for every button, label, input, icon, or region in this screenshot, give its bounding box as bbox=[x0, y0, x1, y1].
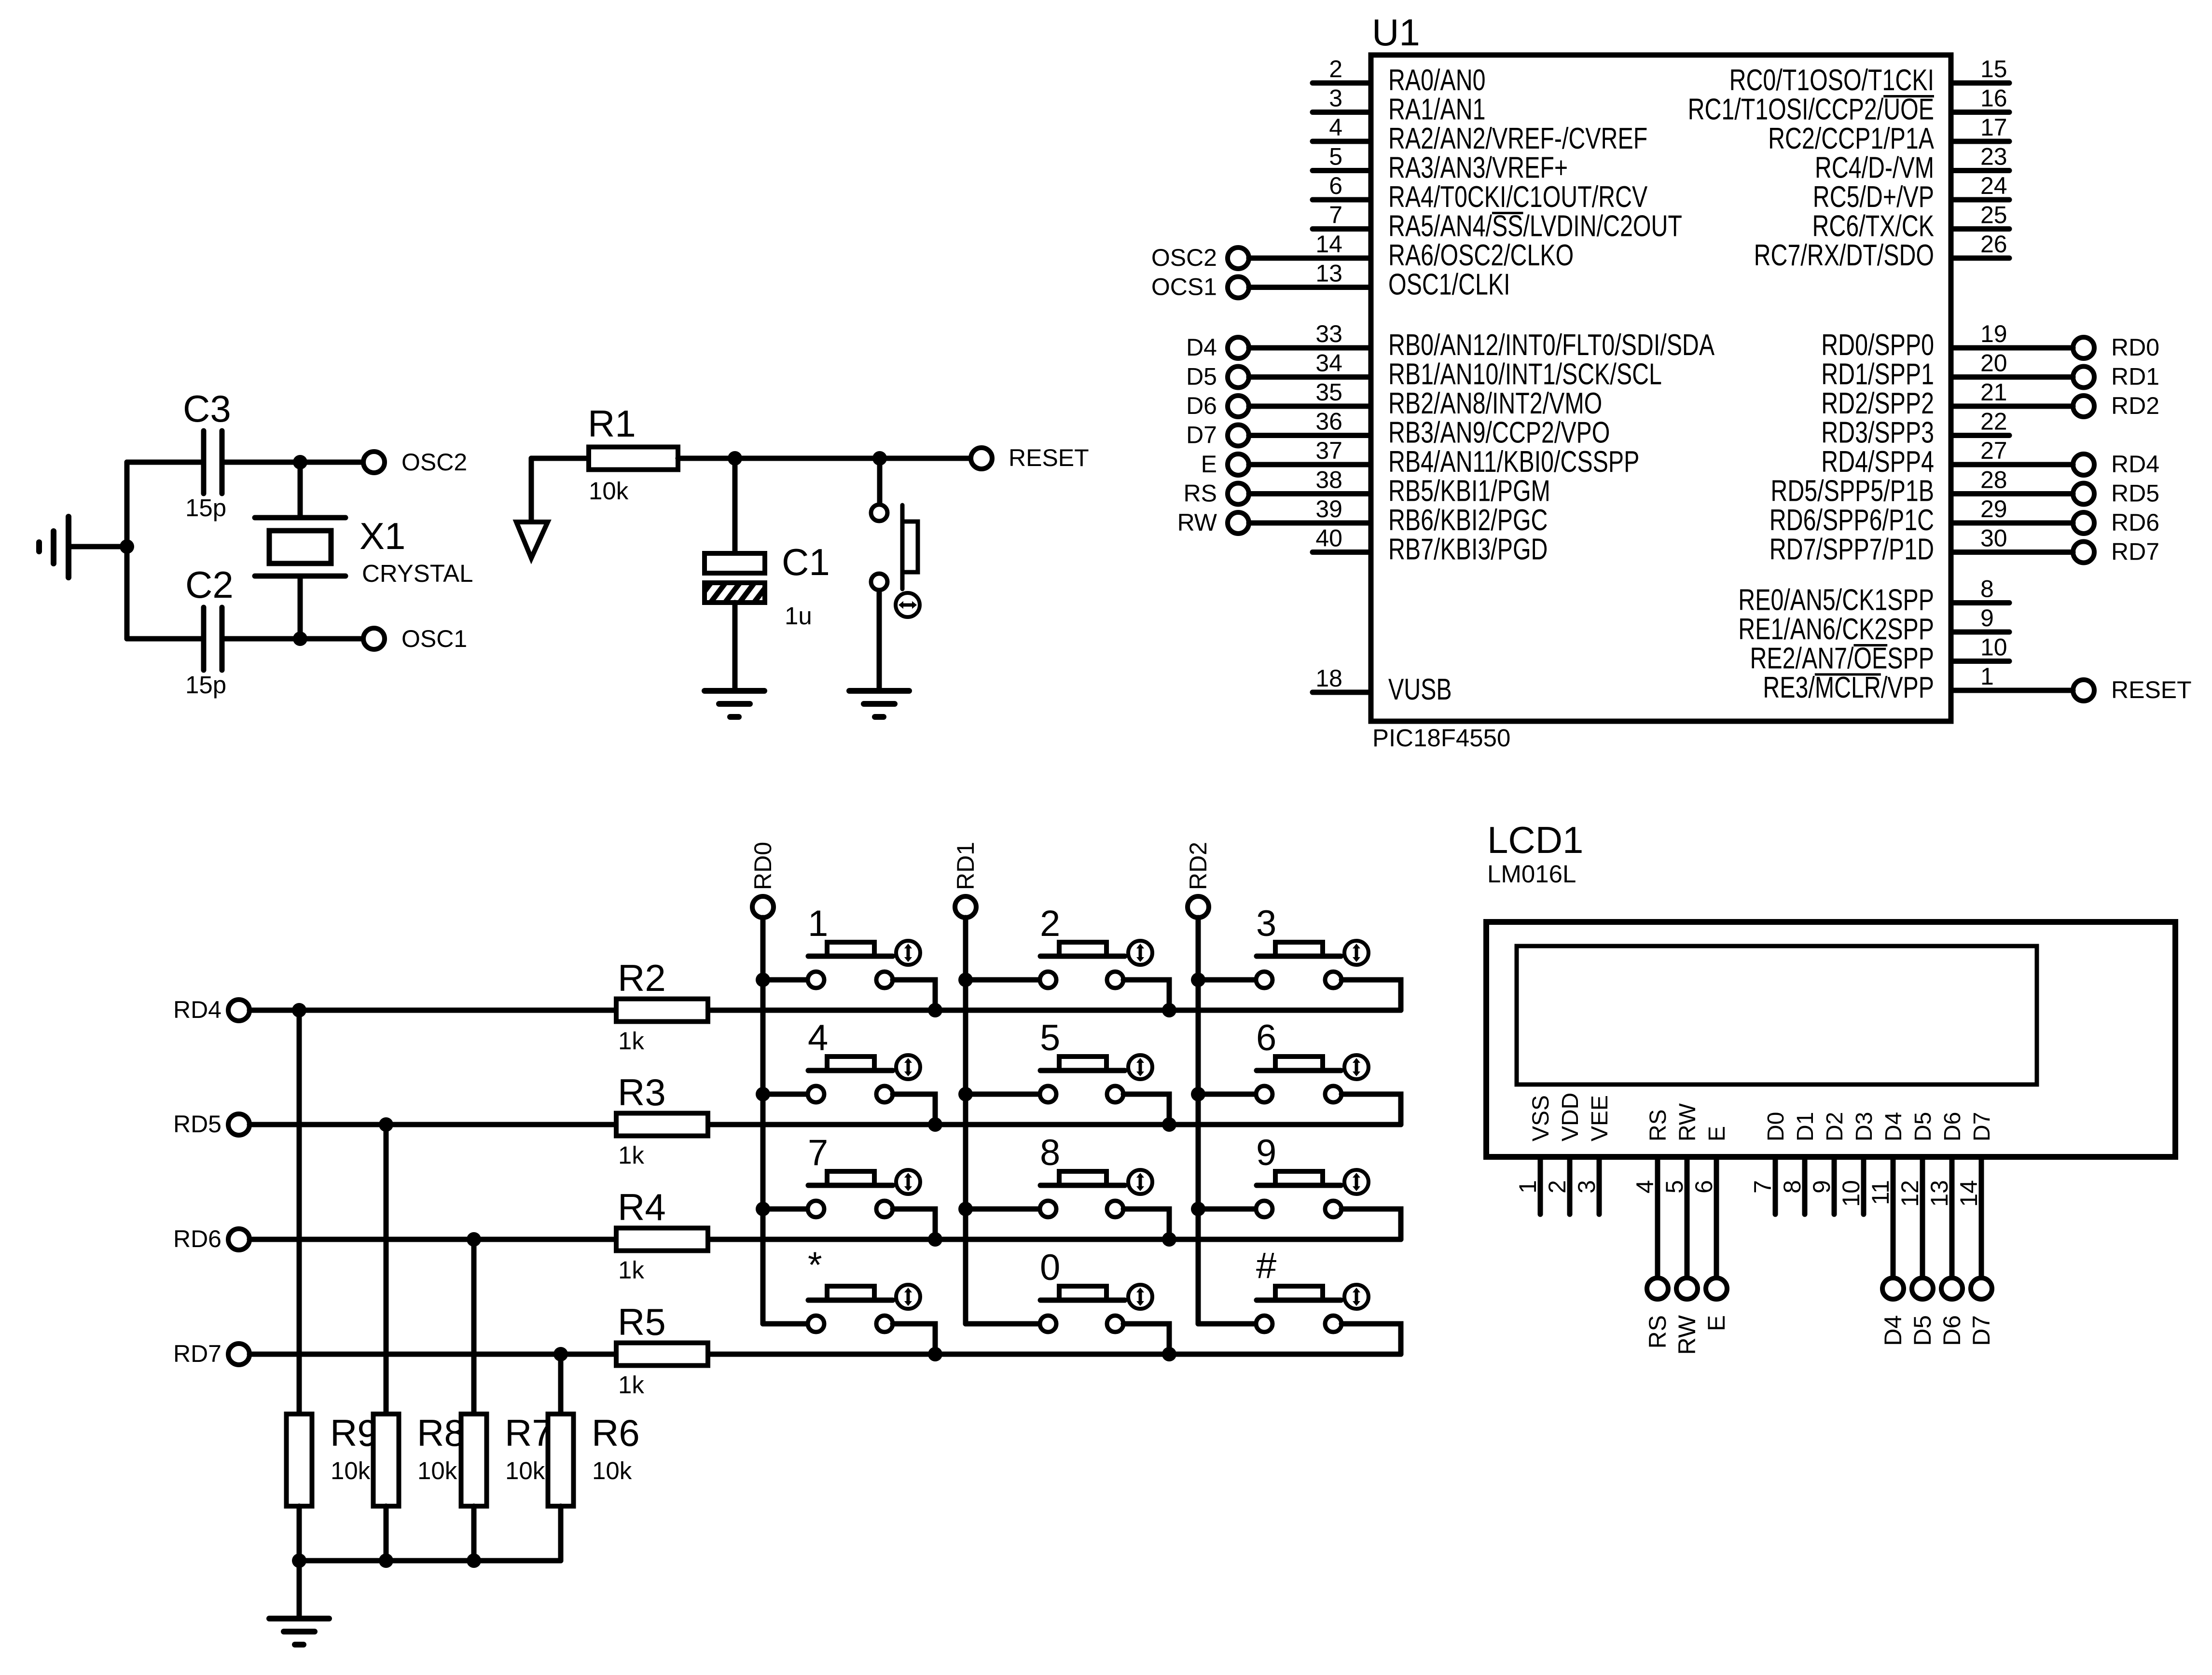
svg-text:D5: D5 bbox=[1909, 1315, 1936, 1346]
svg-text:RD2: RD2 bbox=[1185, 842, 1212, 890]
svg-text:RA4/T0CKI/C1OUT/RCV: RA4/T0CKI/C1OUT/RCV bbox=[1388, 180, 1647, 213]
svg-text:17: 17 bbox=[1980, 114, 2007, 141]
svg-text:R8: R8 bbox=[417, 1412, 465, 1454]
svg-text:X1: X1 bbox=[359, 515, 405, 557]
svg-text:D1: D1 bbox=[1793, 1112, 1818, 1141]
svg-text:13: 13 bbox=[1926, 1180, 1953, 1207]
svg-text:D4: D4 bbox=[1186, 334, 1217, 361]
svg-text:RD0: RD0 bbox=[2111, 334, 2159, 361]
svg-text:RD4: RD4 bbox=[173, 996, 221, 1023]
svg-text:15p: 15p bbox=[185, 494, 226, 522]
svg-text:D5: D5 bbox=[1186, 363, 1217, 390]
svg-text:8: 8 bbox=[1779, 1180, 1806, 1194]
svg-text:25: 25 bbox=[1980, 202, 2007, 229]
svg-text:3: 3 bbox=[1256, 903, 1276, 944]
svg-text:VDD: VDD bbox=[1558, 1093, 1583, 1141]
svg-text:14: 14 bbox=[1315, 231, 1342, 258]
svg-text:21: 21 bbox=[1980, 379, 2007, 406]
svg-text:RA0/AN0: RA0/AN0 bbox=[1388, 63, 1486, 96]
svg-text:1u: 1u bbox=[785, 602, 812, 630]
svg-text:0: 0 bbox=[1040, 1247, 1060, 1288]
svg-text:40: 40 bbox=[1315, 525, 1342, 552]
svg-text:CRYSTAL: CRYSTAL bbox=[362, 560, 473, 587]
svg-text:RD6: RD6 bbox=[2111, 509, 2159, 536]
svg-text:RB5/KBI1/PGM: RB5/KBI1/PGM bbox=[1388, 474, 1550, 508]
svg-text:10: 10 bbox=[1980, 634, 2007, 661]
svg-text:5: 5 bbox=[1661, 1180, 1688, 1194]
svg-text:1k: 1k bbox=[618, 1141, 644, 1169]
svg-text:RA2/AN2/VREF-/CVREF: RA2/AN2/VREF-/CVREF bbox=[1388, 122, 1647, 155]
svg-text:10k: 10k bbox=[331, 1457, 371, 1484]
svg-text:1: 1 bbox=[1514, 1180, 1541, 1194]
svg-text:RB2/AN8/INT2/VMO: RB2/AN8/INT2/VMO bbox=[1388, 386, 1602, 420]
svg-text:D6: D6 bbox=[1186, 392, 1217, 419]
svg-text:6: 6 bbox=[1329, 172, 1342, 199]
svg-text:RD1/SPP1: RD1/SPP1 bbox=[1821, 357, 1934, 391]
svg-text:OSC2: OSC2 bbox=[401, 449, 467, 476]
svg-text:27: 27 bbox=[1980, 437, 2007, 464]
svg-text:28: 28 bbox=[1980, 467, 2007, 494]
svg-text:RD1: RD1 bbox=[952, 842, 979, 890]
svg-text:RD6/SPP6/P1C: RD6/SPP6/P1C bbox=[1770, 503, 1934, 536]
svg-text:26: 26 bbox=[1980, 231, 2007, 258]
svg-text:RC5/D+/VP: RC5/D+/VP bbox=[1813, 180, 1934, 213]
svg-text:8: 8 bbox=[1980, 576, 1994, 603]
svg-text:RC6/TX/CK: RC6/TX/CK bbox=[1812, 209, 1934, 243]
svg-text:OCS1: OCS1 bbox=[1151, 274, 1217, 301]
svg-text:4: 4 bbox=[808, 1017, 828, 1058]
svg-text:RB4/AN11/KBI0/CSSPP: RB4/AN11/KBI0/CSSPP bbox=[1388, 445, 1639, 478]
svg-text:39: 39 bbox=[1315, 495, 1342, 522]
svg-text:1k: 1k bbox=[618, 1371, 644, 1399]
svg-text:13: 13 bbox=[1315, 260, 1342, 287]
svg-text:1: 1 bbox=[1980, 663, 1994, 690]
svg-text:9: 9 bbox=[1256, 1132, 1276, 1173]
svg-text:D6: D6 bbox=[1938, 1315, 1965, 1346]
svg-text:VSS: VSS bbox=[1528, 1095, 1554, 1141]
svg-text:D5: D5 bbox=[1910, 1112, 1936, 1141]
svg-text:37: 37 bbox=[1315, 437, 1342, 464]
svg-text:38: 38 bbox=[1315, 467, 1342, 494]
svg-text:RESET: RESET bbox=[2111, 676, 2192, 703]
svg-text:23: 23 bbox=[1980, 143, 2007, 170]
svg-text:1: 1 bbox=[808, 903, 828, 944]
svg-text:D2: D2 bbox=[1822, 1112, 1848, 1141]
svg-text:E: E bbox=[1201, 451, 1217, 478]
svg-text:33: 33 bbox=[1315, 320, 1342, 347]
svg-text:5: 5 bbox=[1329, 143, 1342, 170]
svg-text:35: 35 bbox=[1315, 379, 1342, 406]
svg-text:U1: U1 bbox=[1372, 11, 1420, 54]
svg-text:#: # bbox=[1256, 1245, 1276, 1286]
svg-text:30: 30 bbox=[1980, 525, 2007, 552]
svg-text:LM016L: LM016L bbox=[1487, 860, 1576, 888]
svg-text:RE0/AN5/CK1SPP: RE0/AN5/CK1SPP bbox=[1738, 583, 1934, 617]
svg-text:RA3/AN3/VREF+: RA3/AN3/VREF+ bbox=[1388, 151, 1568, 184]
svg-text:D7: D7 bbox=[1186, 422, 1217, 449]
svg-text:R3: R3 bbox=[618, 1071, 666, 1113]
svg-text:RA5/AN4/SS/LVDIN/C2OUT: RA5/AN4/SS/LVDIN/C2OUT bbox=[1388, 209, 1682, 243]
svg-text:RESET: RESET bbox=[1009, 444, 1089, 471]
svg-text:R5: R5 bbox=[618, 1301, 666, 1343]
svg-text:RD0/SPP0: RD0/SPP0 bbox=[1821, 328, 1934, 361]
svg-text:RD2: RD2 bbox=[2111, 392, 2159, 419]
svg-text:1k: 1k bbox=[618, 1256, 644, 1284]
svg-text:10k: 10k bbox=[505, 1457, 545, 1484]
svg-text:VEE: VEE bbox=[1587, 1095, 1613, 1141]
svg-text:9: 9 bbox=[1980, 604, 1994, 632]
svg-text:34: 34 bbox=[1315, 350, 1342, 377]
svg-text:RC2/CCP1/P1A: RC2/CCP1/P1A bbox=[1768, 122, 1934, 155]
svg-text:36: 36 bbox=[1315, 408, 1342, 435]
svg-text:1k: 1k bbox=[618, 1027, 644, 1055]
svg-text:RD5: RD5 bbox=[2111, 480, 2159, 507]
svg-text:RD0: RD0 bbox=[749, 842, 776, 890]
svg-text:RD1: RD1 bbox=[2111, 363, 2159, 390]
svg-text:RD4: RD4 bbox=[2111, 451, 2159, 478]
svg-text:3: 3 bbox=[1573, 1180, 1600, 1194]
svg-text:19: 19 bbox=[1980, 320, 2007, 347]
svg-text:RD7: RD7 bbox=[173, 1340, 221, 1367]
svg-text:RS: RS bbox=[1645, 1109, 1671, 1141]
svg-text:OSC2: OSC2 bbox=[1151, 244, 1217, 271]
svg-text:RC1/T1OSI/CCP2/UOE: RC1/T1OSI/CCP2/UOE bbox=[1688, 93, 1934, 126]
svg-text:RB7/KBI3/PGD: RB7/KBI3/PGD bbox=[1388, 533, 1548, 566]
svg-text:C3: C3 bbox=[183, 387, 231, 430]
svg-text:2: 2 bbox=[1544, 1180, 1571, 1194]
svg-text:11: 11 bbox=[1867, 1180, 1894, 1205]
svg-text:RD5/SPP5/P1B: RD5/SPP5/P1B bbox=[1770, 474, 1934, 508]
svg-text:10k: 10k bbox=[417, 1457, 457, 1484]
svg-text:D6: D6 bbox=[1940, 1112, 1965, 1141]
svg-text:RW: RW bbox=[1177, 509, 1217, 536]
svg-text:R2: R2 bbox=[618, 957, 666, 999]
svg-text:4: 4 bbox=[1329, 114, 1342, 141]
svg-text:7: 7 bbox=[1749, 1180, 1776, 1194]
svg-text:R1: R1 bbox=[588, 402, 636, 445]
svg-text:5: 5 bbox=[1040, 1017, 1060, 1058]
svg-text:RB1/AN10/INT1/SCK/SCL: RB1/AN10/INT1/SCK/SCL bbox=[1388, 357, 1662, 391]
svg-text:RA1/AN1: RA1/AN1 bbox=[1388, 93, 1486, 126]
svg-text:E: E bbox=[1703, 1315, 1730, 1331]
svg-text:RD2/SPP2: RD2/SPP2 bbox=[1821, 386, 1934, 420]
svg-text:RW: RW bbox=[1675, 1103, 1700, 1141]
svg-text:OSC1: OSC1 bbox=[401, 625, 467, 652]
svg-text:RA6/OSC2/CLKO: RA6/OSC2/CLKO bbox=[1388, 238, 1574, 272]
svg-text:RS: RS bbox=[1644, 1315, 1671, 1348]
svg-text:2: 2 bbox=[1329, 55, 1342, 82]
svg-text:LCD1: LCD1 bbox=[1487, 819, 1583, 861]
svg-text:OSC1/CLKI: OSC1/CLKI bbox=[1388, 268, 1510, 301]
svg-text:15: 15 bbox=[1980, 55, 2007, 82]
svg-text:C1: C1 bbox=[782, 541, 830, 583]
svg-text:10: 10 bbox=[1838, 1180, 1865, 1207]
svg-text:RW: RW bbox=[1673, 1315, 1700, 1355]
svg-text:6: 6 bbox=[1690, 1180, 1717, 1194]
svg-text:RD5: RD5 bbox=[173, 1111, 221, 1138]
svg-text:D7: D7 bbox=[1969, 1112, 1995, 1141]
svg-text:D0: D0 bbox=[1763, 1112, 1789, 1141]
svg-text:RE3/MCLR/VPP: RE3/MCLR/VPP bbox=[1763, 671, 1934, 704]
svg-text:24: 24 bbox=[1980, 172, 2007, 199]
svg-text:7: 7 bbox=[1329, 202, 1342, 229]
svg-text:10k: 10k bbox=[589, 477, 629, 505]
svg-text:RC7/RX/DT/SDO: RC7/RX/DT/SDO bbox=[1754, 238, 1934, 272]
svg-text:RS: RS bbox=[1184, 480, 1217, 507]
svg-text:VUSB: VUSB bbox=[1388, 673, 1452, 706]
svg-text:RD4/SPP4: RD4/SPP4 bbox=[1821, 445, 1934, 478]
svg-text:RD7: RD7 bbox=[2111, 538, 2159, 565]
svg-text:*: * bbox=[808, 1245, 822, 1286]
svg-text:C2: C2 bbox=[185, 563, 234, 606]
svg-text:RB3/AN9/CCP2/VPO: RB3/AN9/CCP2/VPO bbox=[1388, 416, 1610, 449]
svg-text:RD6: RD6 bbox=[173, 1225, 221, 1252]
svg-text:RB6/KBI2/PGC: RB6/KBI2/PGC bbox=[1388, 503, 1548, 536]
svg-text:D4: D4 bbox=[1880, 1315, 1907, 1346]
svg-text:D4: D4 bbox=[1881, 1112, 1907, 1141]
svg-text:20: 20 bbox=[1980, 350, 2007, 377]
svg-text:RE2/AN7/OESPP: RE2/AN7/OESPP bbox=[1750, 642, 1934, 675]
svg-text:12: 12 bbox=[1896, 1180, 1923, 1207]
svg-text:PIC18F4550: PIC18F4550 bbox=[1372, 724, 1510, 752]
svg-text:22: 22 bbox=[1980, 408, 2007, 435]
svg-text:R4: R4 bbox=[618, 1186, 666, 1228]
svg-text:8: 8 bbox=[1040, 1132, 1060, 1173]
svg-text:2: 2 bbox=[1040, 903, 1060, 944]
svg-text:RD7/SPP7/P1D: RD7/SPP7/P1D bbox=[1770, 533, 1934, 566]
svg-text:RE1/AN6/CK2SPP: RE1/AN6/CK2SPP bbox=[1738, 612, 1934, 645]
svg-text:14: 14 bbox=[1955, 1180, 1982, 1207]
svg-text:R6: R6 bbox=[592, 1412, 640, 1454]
svg-text:15p: 15p bbox=[185, 671, 226, 699]
svg-text:RD3/SPP3: RD3/SPP3 bbox=[1821, 416, 1934, 449]
svg-text:3: 3 bbox=[1329, 85, 1342, 112]
svg-text:RC0/T1OSO/T1CKI: RC0/T1OSO/T1CKI bbox=[1729, 63, 1934, 96]
svg-text:RB0/AN12/INT0/FLT0/SDI/SDA: RB0/AN12/INT0/FLT0/SDI/SDA bbox=[1388, 328, 1714, 361]
svg-text:10k: 10k bbox=[592, 1457, 632, 1484]
svg-text:18: 18 bbox=[1315, 665, 1342, 692]
svg-text:16: 16 bbox=[1980, 85, 2007, 112]
svg-text:7: 7 bbox=[808, 1132, 828, 1173]
svg-text:9: 9 bbox=[1808, 1180, 1835, 1194]
svg-text:D7: D7 bbox=[1968, 1315, 1995, 1346]
svg-text:29: 29 bbox=[1980, 495, 2007, 522]
svg-text:6: 6 bbox=[1256, 1017, 1276, 1058]
svg-text:E: E bbox=[1704, 1126, 1730, 1141]
svg-text:4: 4 bbox=[1631, 1180, 1659, 1194]
svg-text:RC4/D-/VM: RC4/D-/VM bbox=[1815, 151, 1934, 184]
svg-text:D3: D3 bbox=[1852, 1112, 1877, 1141]
